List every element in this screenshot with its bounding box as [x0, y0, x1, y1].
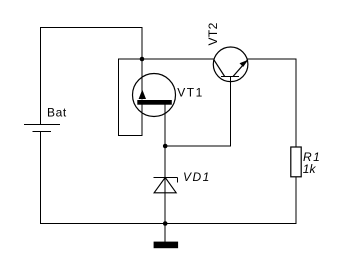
wire right vertical above R1	[295, 59, 297, 147]
battery Bat	[24, 125, 60, 132]
zener diode VD1	[154, 178, 178, 193]
wire right vertical below R1	[295, 177, 297, 224]
wire top-right vertical to junction	[141, 28, 143, 60]
wire VT2 base lead vertical	[229, 77, 231, 147]
svg-text:1k: 1k	[303, 162, 317, 176]
svg-text:VT2: VT2	[206, 22, 220, 45]
svg-text:VD1: VD1	[183, 170, 211, 184]
svg-text:Bat: Bat	[47, 105, 67, 119]
wire left branch vertical	[117, 59, 119, 136]
wire VT1 drain lead down through VD1 to ground	[164, 105, 166, 242]
transistor VT1	[133, 74, 176, 117]
wire VT1 source lead to left branch	[141, 105, 143, 136]
wire top right horizontal to VT2 emitter	[248, 58, 296, 60]
node junction bottom	[163, 221, 168, 226]
resistor R1	[291, 147, 301, 177]
node junction middle	[163, 144, 168, 149]
wire top rail	[41, 27, 143, 29]
wire battery top lead	[40, 28, 42, 125]
node junction top	[140, 57, 145, 62]
transistor VT2	[213, 47, 248, 82]
wire left branch bottom horizontal	[118, 135, 142, 137]
wire junction to VT2 collector	[142, 58, 214, 60]
wire VT1 gate lead from junction	[141, 59, 143, 99]
ground	[154, 242, 179, 249]
wire bottom rail	[41, 223, 297, 225]
wire battery bottom lead	[40, 132, 42, 224]
wire left branch horizontal from junction	[118, 58, 142, 60]
svg-text:VT1: VT1	[177, 85, 204, 99]
wire node to VT2 base horizontal	[165, 145, 230, 147]
